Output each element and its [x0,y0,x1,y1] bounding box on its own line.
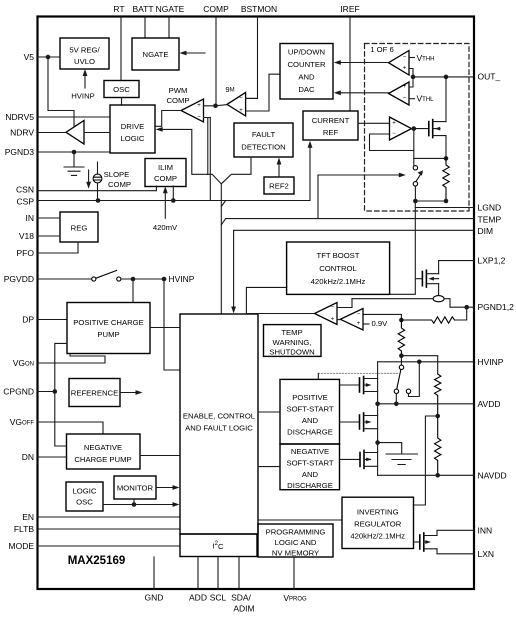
svg-text:NGATE: NGATE [143,50,169,59]
svg-text:INVERTING: INVERTING [357,508,399,517]
svg-text:TEMP: TEMP [281,328,302,337]
svg-text:TEMP: TEMP [478,215,502,225]
resistor divider upper [398,320,404,356]
wire slope comp down arrow [88,170,90,184]
wire CSP diagonal to trunk [221,201,225,207]
block REG [60,212,98,242]
svg-text:DIM: DIM [478,226,494,236]
svg-text:IREF: IREF [340,4,359,14]
arrowhead INN mosfet body [425,540,431,544]
svg-text:ILIM: ILIM [158,163,173,172]
wire 0.9V ref stub [363,323,369,325]
switch contact right [406,389,410,393]
svg-text:−: − [403,55,407,61]
svg-text:DISCHARGE: DISCHARGE [287,428,333,437]
arrowhead dim switch blade [417,170,423,175]
dotted soft start control line [318,372,399,374]
wire HVINP to enable logic [164,279,180,370]
wire dotted stub [317,373,319,379]
switch contact common [399,365,403,369]
transistor inverting MOSFET [414,541,420,543]
wire LXP source to sense [438,284,440,296]
block REFERENCE [69,379,120,407]
pin CSP wire [37,200,310,202]
wire pos pump to enable [150,327,180,329]
node CSP slope junction [96,198,101,203]
pin IN wire [37,217,60,219]
svg-text:SDA/: SDA/ [231,593,251,603]
svg-text:DRIVE: DRIVE [121,122,145,131]
switch dim blade arrow [416,173,421,181]
ground discharge [378,443,418,465]
svg-text:NV MEMORY: NV MEMORY [272,549,319,558]
wire LED return vertical to TFT boost [390,201,423,294]
wire left contact to AVDD [395,394,397,404]
block PROGRAMMING LOGIC AND NV MEMORY [258,524,333,557]
svg-text:PGVDD: PGVDD [4,274,34,284]
pin PFO wire [37,242,78,253]
svg-text:NDRV5: NDRV5 [5,112,34,122]
wire switch to HVINP [121,278,166,280]
arrowhead M2 body [366,420,372,424]
wire buffer output [412,128,429,130]
svg-text:1 OF 6: 1 OF 6 [370,45,394,54]
block REF2 [264,177,294,194]
pin DN wire [37,456,67,458]
wire LXP drain [439,261,474,274]
wire enable to soft start [258,412,280,467]
svg-text:OSC: OSC [113,85,130,94]
op-amp 0.9V comparator [340,309,363,331]
svg-text:COUNTER: COUNTER [287,60,325,69]
svg-text:LOGIC: LOGIC [73,487,97,496]
svg-text:CSN: CSN [16,185,34,195]
svg-text:−: − [403,96,407,102]
node divider junction [399,353,404,358]
svg-text:AND FAULT LOGIC: AND FAULT LOGIC [185,424,253,433]
svg-text:COMP: COMP [166,96,189,105]
wire error amp output to TFT boost [246,313,314,315]
pin IREF [349,17,351,111]
svg-text:LOGIC AND: LOGIC AND [275,538,317,547]
svg-text:TFT BOOST: TFT BOOST [317,251,360,260]
svg-text:−: − [239,95,243,101]
svg-text:PGND1,2: PGND1,2 [478,302,515,312]
svg-text:−: − [357,311,361,317]
svg-text:DP: DP [22,315,34,325]
svg-text:SHUTDOWN: SHUTDOWN [269,348,314,357]
svg-text:+: + [403,84,407,90]
current sense ellipse [433,296,444,302]
svg-text:+: + [357,321,361,327]
node junction [162,277,167,282]
svg-text:PGND3: PGND3 [5,147,35,157]
wire TFT boost to enable top [246,287,286,314]
svg-text:INN: INN [478,525,493,535]
svg-text:LGND: LGND [478,203,502,213]
switch blade [397,370,401,389]
pin OUT_ wire [413,76,474,78]
arrowhead LOGIC OSC to enable [173,502,180,507]
resistor sink [443,158,449,201]
pin CPGND wire [37,391,55,393]
svg-text:LXN: LXN [478,549,495,559]
wire VTHH input stub [409,57,415,59]
svg-text:SOFT-START: SOFT-START [286,405,333,414]
transistor sink MOSFET [428,122,430,136]
op-amp VTHH comparator [389,51,410,76]
svg-text:UP/DOWN: UP/DOWN [288,48,325,57]
arrowhead VTHH into DAC [334,60,341,65]
pin TEMP wire [226,175,474,219]
arrowhead LXP mosfet body [428,277,434,281]
svg-text:OSC: OSC [76,498,93,507]
node AVDD bus junction [375,402,380,407]
pin COMP [215,17,217,106]
resistor to NAVDD [435,416,441,475]
pin SCL stub [217,557,219,590]
op-amp VTHL comparator [389,82,410,105]
block OSC [104,81,139,98]
svg-text:FLTB: FLTB [14,524,34,534]
svg-text:SCL: SCL [210,593,227,603]
pin V5 wire [37,56,60,58]
pin AVDD wire [378,403,474,405]
wire CSP to ILIM input [172,186,174,201]
svg-text:CHARGE PUMP: CHARGE PUMP [74,455,131,464]
svg-text:DETECTION: DETECTION [241,143,285,152]
wire VTHL plus input [409,77,413,87]
transistor M1 HVINP switch [340,384,360,386]
arrowhead switch control [399,173,406,178]
pin BATT [144,17,146,38]
svg-text:ADD: ADD [189,593,207,603]
node source junction [444,156,449,161]
svg-text:NDRV: NDRV [10,128,34,138]
chip outline border [38,17,475,590]
svg-text:RT: RT [113,4,124,14]
svg-text:WARNING,: WARNING, [272,338,311,347]
svg-text:DISCHARGE: DISCHARGE [287,481,333,490]
svg-text:REGULATOR: REGULATOR [354,520,402,529]
arrowhead HVINP up into 5VREG [83,69,88,76]
arrowhead M1 body [366,383,372,387]
block MONITOR [114,476,156,499]
wire error amp sense input [337,299,352,308]
op-amp current sink buffer [390,117,412,140]
node NAVDD junction [435,473,440,478]
wire source sense horizontal [414,157,446,159]
wire REFERENCE output arrow [120,392,137,394]
node junction [131,277,136,282]
wire trunk bus [220,184,222,314]
wire OSC to DRIVE LOGIC [121,98,123,106]
svg-text:PWM: PWM [169,86,188,95]
wire TEMP diagonal to trunk [221,219,225,225]
arrowhead into NGATE [180,51,187,56]
pin PGND3 wire [37,151,110,153]
svg-text:MODE: MODE [9,541,35,551]
svg-text:420kHz/2.1MHz: 420kHz/2.1MHz [311,277,366,286]
block I2C [180,534,257,557]
current source SLOPE COMP [93,174,102,183]
wire buffer minus loop [370,134,414,151]
wire LOGIC OSC arrow to enable [103,499,174,505]
pin LGND wire [415,207,474,209]
wire 9M inputs [246,74,280,111]
block ENABLE CONTROL AND FAULT LOGIC [180,314,258,534]
wire comparator sense input [363,314,401,320]
block NGATE [132,38,179,70]
switch PGVDD contact [92,277,96,281]
pin DIM wire with arrow into enable [234,230,474,307]
svg-text:IN: IN [26,213,35,223]
block FAULT DETECTION [234,123,293,157]
svg-text:−: − [392,131,396,137]
svg-text:AND: AND [302,470,319,479]
wire 420mV arrow to ILIM [164,192,166,218]
node rail left junction [413,199,418,204]
wire VTHH plus input [409,69,413,77]
pin VGON wire [37,354,105,364]
wire VTHL input stub [409,98,415,100]
arrowhead 420mV into ILIM [163,186,168,193]
node PGND junction [464,305,469,310]
block NEGATIVE SOFT-START AND DISCHARGE [280,444,340,490]
pin V18 wire [37,235,60,237]
node CPGND junction [53,389,58,394]
block TEMP WARNING SHUTDOWN [264,325,322,357]
svg-text:AND: AND [298,73,315,82]
arrowhead DIM into enable [231,307,236,314]
svg-text:POSITIVE CHARGE: POSITIVE CHARGE [73,318,143,327]
node OUT junction [411,75,416,80]
block POSITIVE SOFT-START AND DISCHARGE [280,379,340,444]
op-amp boost error amp [315,303,338,325]
block TFT BOOST CONTROL [287,242,390,294]
wire MONITOR arrow to enable [156,487,174,489]
arrowhead REFERENCE out [136,390,143,395]
svg-text:MONITOR: MONITOR [117,484,154,493]
wire REF2 arrow to FAULT DETECTION [278,163,280,178]
svg-text:EN: EN [22,512,34,522]
svg-text:I2C: I2C [212,541,223,551]
wire feedback vertical [413,129,415,166]
switch contact right [117,277,121,281]
svg-text:LXP1,2: LXP1,2 [478,256,506,266]
node PWM/9M junction [213,104,218,109]
node junction [435,414,440,419]
block INVERTING REGULATOR [342,497,414,548]
svg-text:COMP: COMP [154,174,177,183]
svg-text:AVDD: AVDD [478,399,501,409]
svg-text:CPGND: CPGND [3,387,34,397]
op-amp PWM COMP [181,99,204,122]
switch blade [96,270,117,278]
arrowhead slope comp down [86,182,91,189]
pin NDRV wire [37,132,110,134]
arrowhead M3 body [366,458,372,462]
node CSP ILIM junction [171,198,176,203]
wire switch control arrow [318,174,400,176]
svg-text:REF: REF [323,128,339,137]
wire comparator output to error amp [337,319,340,321]
wire V5 to driver supply [48,57,74,127]
pin BSTMON [246,17,258,98]
wire divider to AVDD resistor [401,356,437,374]
wire sink drain [445,77,447,122]
pin FLTB wire [37,528,180,530]
svg-text:5V REG/: 5V REG/ [69,46,100,55]
svg-text:HVINP: HVINP [169,274,195,284]
svg-text:HVINP: HVINP [71,92,95,101]
gate driver buffer triangle [66,121,84,145]
arrowhead into CURRENT REF [308,141,313,148]
resistor feedback horizontal [455,307,467,320]
svg-text:COMP: COMP [203,4,229,14]
svg-text:ENABLE, CONTROL: ENABLE, CONTROL [183,412,256,421]
pin NDRV5 wire [37,116,110,118]
arrowhead into DRIVE LOGIC [156,127,163,132]
op-amp 9M gain stage [227,92,246,116]
pin HVINP wire [378,361,474,363]
svg-text:BATT: BATT [132,4,153,14]
arrowhead sink mosfet body [435,127,441,131]
svg-text:POSITIVE: POSITIVE [292,393,327,402]
wire VTHL comp output arrow to DAC [340,92,389,94]
block POSITIVE CHARGE PUMP [67,303,150,354]
svg-text:+: + [197,103,201,109]
node buffer output junction [412,126,417,131]
svg-text:0.9V: 0.9V [372,319,389,328]
svg-text:FAULT: FAULT [252,130,276,139]
svg-text:ADIM: ADIM [233,604,254,614]
svg-text:420kHz/2.1MHz: 420kHz/2.1MHz [350,532,405,541]
wire HVINP arrow into 5V REG [84,73,86,89]
block UP/DOWN COUNTER AND DAC [280,44,333,100]
svg-text:420mV: 420mV [153,223,178,232]
svg-text:AND: AND [302,416,319,425]
svg-text:SOFT-START: SOFT-START [286,458,333,467]
block DRIVE LOGIC [110,105,155,153]
pin EN wire [37,516,180,518]
arrowhead REF2 into FAULT [277,158,282,165]
wire right contact to HVINP [409,362,420,397]
svg-text:NGATE: NGATE [156,4,185,14]
svg-text:+: + [403,66,407,72]
svg-text:BSTMON: BSTMON [241,4,277,14]
svg-text:PROGRAMMING: PROGRAMMING [266,528,326,537]
svg-text:LOGIC: LOGIC [121,134,145,143]
svg-text:OUT_: OUT_ [478,72,501,82]
block LOGIC OSC [66,482,103,511]
wire arrow into NGATE right [182,52,205,54]
wire to LGND rail [415,186,446,201]
svg-text:+: + [392,120,396,126]
node 0.9V sense junction [399,318,404,323]
arrowhead VTHL into DAC [334,90,341,95]
pin CSN wire to ILIM [37,186,156,191]
svg-text:NEGATIVE: NEGATIVE [84,443,122,452]
svg-text:+: + [331,317,335,323]
transistor M3 discharge switch [340,458,361,460]
switch dim contact bottom [413,182,417,186]
pin RT [120,17,122,81]
svg-text:CSP: CSP [17,197,35,207]
svg-text:COMP: COMP [108,180,131,189]
block 5V REG/UVLO U1 [60,38,109,69]
wire CURRENT REF output [358,122,390,124]
pin INN wire [437,530,474,535]
svg-text:PUMP: PUMP [97,330,119,339]
node AVDD switch junction [394,402,399,407]
svg-text:SLOPE: SLOPE [104,170,130,179]
pin SDA stub [238,557,240,590]
svg-text:MAX25169: MAX25169 [68,555,126,567]
svg-text:+: + [239,108,243,114]
switch startup common stem [400,356,402,365]
wire current sense line [352,299,474,308]
svg-text:GND: GND [145,593,164,603]
node V5 junction [46,55,51,60]
pin PGVDD wire and switch [37,278,92,280]
node discharge junction [375,440,380,445]
wire PWM COMP output to DRIVE LOGIC [156,111,181,127]
pin NAVDD wire [378,474,474,476]
wire VTHH comp output arrow to DAC [340,62,389,64]
transistor LXP boost MOSFET [421,272,423,286]
svg-text:NEGATIVE: NEGATIVE [291,447,329,456]
svg-text:DN: DN [22,452,34,462]
svg-text:REG: REG [71,224,88,233]
pin NGATE [168,17,170,38]
wire PWM inputs [204,106,216,118]
wire ILIM/trunk arrow into DRIVE LOGIC [159,129,222,183]
svg-text:REFERENCE: REFERENCE [71,389,118,398]
pin DP wire [37,319,67,321]
svg-text:CONTROL: CONTROL [319,264,357,273]
wire 9M output to node [216,105,228,106]
svg-text:V5: V5 [24,52,35,62]
wire to positive charge pump [132,279,134,303]
node junction [132,502,137,507]
wire enable to inverting regulator [258,519,342,521]
svg-text:−: − [197,115,201,121]
pin LXN wire [437,549,474,554]
wire to inverting regulator [414,416,438,505]
wire CSP to CURRENT REF arrow [309,146,311,201]
svg-text:NAVDD: NAVDD [478,470,507,480]
node HVINP junction [417,360,422,365]
pin VGOFF wire [37,422,103,434]
arrowhead MONITOR to enable [173,485,180,490]
wire CPGND to pumps [55,343,67,446]
switch dim contact top [413,166,417,170]
block NEGATIVE CHARGE PUMP [67,434,141,469]
switch contact left [394,389,398,393]
wire sink source [445,136,447,159]
block CURRENT REF [303,111,358,140]
ground PGND3 [64,152,84,175]
svg-text:REF2: REF2 [269,182,289,191]
svg-text:PFO: PFO [17,248,35,258]
pin VPROG stub [293,557,295,589]
svg-text:HVINP: HVINP [478,357,504,367]
node OUT mosfet junction [444,75,449,80]
pin MODE wire [37,545,180,547]
node PGND3 junction [72,150,77,155]
pin ADD stub [197,557,199,590]
